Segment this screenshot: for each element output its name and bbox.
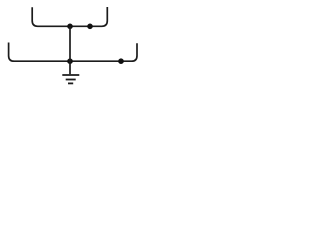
junction dot: upper wire connection point at (90,26): [87, 24, 93, 30]
junction dot: lower wire PE tap at node (70,61): [67, 58, 73, 64]
wire: lower level conductor: [9, 43, 137, 62]
wire: upper level conductor: [32, 7, 107, 26]
ground (PE earth symbol, three bars): [62, 75, 79, 83]
junction dot: lower wire connection point at (121,61): [118, 58, 124, 64]
junction dot: upper wire PE tap at node (70,26): [67, 24, 73, 30]
wire: vertical PE connection from upper wire through lower wire to ground: [69, 26, 71, 74]
